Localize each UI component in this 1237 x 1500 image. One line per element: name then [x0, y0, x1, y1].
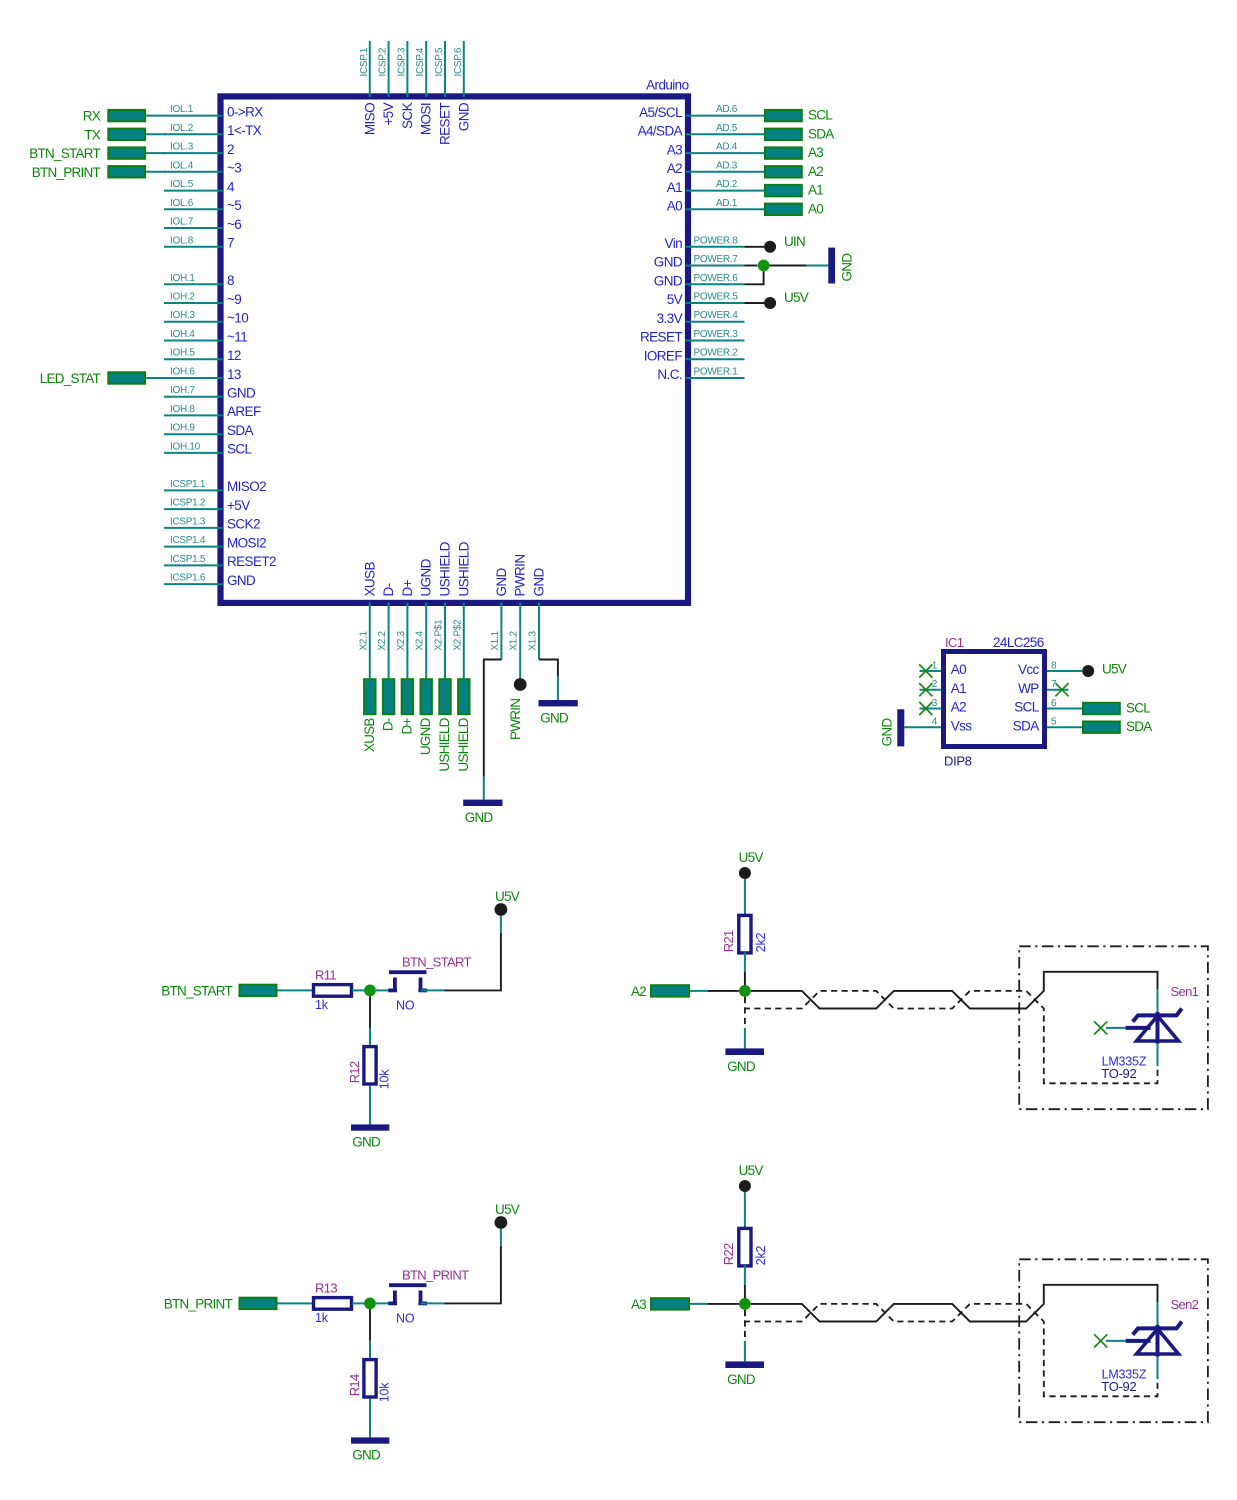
svg-text:UIN: UIN	[784, 234, 805, 249]
pad A2 (net A2)	[765, 164, 823, 179]
wire junction to R12	[369, 996, 371, 1045]
svg-text:4: 4	[227, 179, 235, 194]
wire BTN_START pad to R11	[278, 989, 314, 991]
svg-text:5V: 5V	[667, 292, 683, 307]
pin 5 (SDA) of IC1	[1013, 717, 1082, 734]
pin IOL.6 (~5) wire and labels	[164, 198, 241, 213]
svg-text:~10: ~10	[227, 311, 248, 326]
svg-text:8: 8	[227, 273, 234, 288]
svg-text:A2: A2	[631, 984, 646, 999]
svg-text:GND: GND	[654, 255, 683, 270]
pin IOH.5 (12) wire and labels	[164, 348, 241, 363]
ground GND symbol below R14	[351, 1437, 389, 1462]
pin 1 (A0) of IC1	[919, 661, 966, 678]
wire X1.3 to ground	[539, 603, 558, 701]
svg-text:IOL.1: IOL.1	[170, 104, 194, 115]
svg-text:ICSP.6: ICSP.6	[453, 47, 464, 76]
pin IOH.4 (~11) wire and labels	[164, 329, 247, 344]
pin X2.1 (XUSB) wire and labels	[358, 562, 377, 679]
label DIP8 package	[944, 754, 972, 769]
svg-text:IOH.2: IOH.2	[170, 292, 195, 303]
svg-text:IOH.3: IOH.3	[170, 310, 195, 321]
wire U5V to R22	[744, 1192, 746, 1228]
svg-text:SCL: SCL	[227, 442, 253, 457]
svg-text:N.C.: N.C.	[657, 367, 682, 382]
svg-text:GND: GND	[456, 102, 471, 131]
wire POWER.6 to GND junction	[745, 271, 764, 284]
svg-text:IOH.1: IOH.1	[170, 273, 195, 284]
pin ICSP1.3 (SCK2) wire and labels	[164, 516, 260, 531]
wire junction to switch BTN_START	[376, 989, 393, 991]
wire junction to ground (dashed)	[744, 997, 746, 1049]
svg-text:~5: ~5	[227, 198, 241, 213]
pin X2.P$2 (USHIELD) wire and labels	[452, 541, 471, 678]
svg-text:BTN_START: BTN_START	[161, 983, 232, 998]
svg-text:AD.4: AD.4	[716, 142, 738, 153]
svg-text:GND: GND	[227, 573, 256, 588]
wire R21 to junction	[744, 952, 746, 985]
svg-text:RESET2: RESET2	[227, 554, 276, 569]
resistor R14 (10k)	[347, 1360, 392, 1403]
pin ICSP.3 (SCK) wire and labels	[396, 41, 415, 129]
junction node A2 (green dot)	[739, 985, 751, 997]
svg-text:POWER.1: POWER.1	[694, 367, 739, 378]
svg-text:A2: A2	[951, 700, 966, 715]
pin AD.1 (A0) wire and labels	[667, 198, 764, 214]
pad XUSB (net XUSB)	[362, 679, 377, 752]
svg-text:2k2: 2k2	[754, 1245, 768, 1265]
pad D- (net D-)	[381, 679, 396, 731]
svg-text:12: 12	[227, 348, 241, 363]
wire Sen1 anode lead	[1157, 1044, 1159, 1067]
svg-text:USHIELD: USHIELD	[456, 541, 471, 596]
svg-text:SCK: SCK	[400, 102, 415, 129]
wire R14 to ground	[369, 1399, 371, 1438]
wire Sen2 ADJ pin with no-connect cross	[1094, 1334, 1126, 1347]
wire junction to ground (dashed)	[744, 1310, 746, 1362]
resistor R21 (2k2)	[721, 915, 768, 953]
svg-text:A3: A3	[667, 142, 682, 157]
ground GND symbol right of Arduino	[828, 248, 854, 284]
svg-text:IOL.7: IOL.7	[170, 217, 194, 228]
svg-text:1k: 1k	[315, 998, 329, 1012]
svg-text:SCK2: SCK2	[227, 517, 260, 532]
svg-text:A3: A3	[631, 1297, 646, 1312]
svg-text:NO: NO	[396, 999, 415, 1013]
svg-text:AD.2: AD.2	[716, 179, 738, 190]
wire R12 to ground	[369, 1086, 371, 1125]
svg-text:2k2: 2k2	[754, 932, 768, 952]
wire R22 to junction	[744, 1265, 746, 1298]
svg-text:U5V: U5V	[495, 1202, 520, 1217]
svg-text:MISO2: MISO2	[227, 479, 266, 494]
svg-text:A0: A0	[951, 662, 966, 677]
pad SDA (net SDA) at IC1	[1083, 719, 1152, 734]
svg-text:D+: D+	[399, 718, 414, 735]
pad SCL (net SCL)	[765, 108, 833, 123]
svg-text:GND: GND	[494, 567, 509, 596]
wire twisted-pair return GND to Sen1	[745, 991, 1158, 1083]
pin POWER.2 (IOREF) wire and labels	[644, 348, 745, 364]
svg-text:4: 4	[932, 717, 938, 728]
svg-text:A3: A3	[808, 145, 823, 160]
pin AD.6 (A5/SCL) wire and labels	[639, 104, 764, 120]
node U5V above switch	[495, 1202, 520, 1229]
pad A2 (net A2)	[631, 984, 689, 999]
svg-text:PWRIN: PWRIN	[513, 555, 528, 597]
svg-text:1k: 1k	[315, 1311, 329, 1325]
svg-text:10k: 10k	[378, 1382, 392, 1403]
resistor R12 (10k)	[347, 1047, 392, 1090]
svg-text:A1: A1	[951, 681, 966, 696]
svg-text:GND: GND	[227, 386, 256, 401]
svg-text:SCL: SCL	[1014, 700, 1040, 715]
svg-text:USHIELD: USHIELD	[438, 541, 453, 596]
junction GND node (green dot)	[758, 260, 770, 272]
pin ICSP.6 (GND) wire and labels	[453, 41, 472, 131]
pad USHIELD (net USHIELD)	[437, 679, 452, 771]
pad LED_STAT (net LED_STAT)	[40, 371, 166, 386]
svg-text:BTN_PRINT: BTN_PRINT	[32, 165, 101, 180]
svg-text:U5V: U5V	[495, 889, 520, 904]
svg-text:ICSP.5: ICSP.5	[434, 47, 445, 76]
svg-text:IC1: IC1	[945, 635, 964, 650]
pin ICSP1.2 (+5V) wire and labels	[164, 498, 250, 513]
label LM335Z part value	[1102, 1055, 1147, 1069]
svg-text:GND: GND	[727, 1059, 756, 1074]
svg-text:A1: A1	[667, 180, 682, 195]
wire twisted-pair signal A3 to Sen2	[751, 1285, 1158, 1322]
pin IOH.10 (SCL) wire and labels	[164, 441, 253, 456]
svg-text:BTN_PRINT: BTN_PRINT	[402, 1268, 469, 1283]
svg-text:RX: RX	[83, 109, 101, 124]
switch S BTN_START (NO pushbutton)	[388, 955, 471, 1013]
frame dash-dot enclosure Sen2	[1019, 1259, 1208, 1422]
wire Sen1 ADJ pin with no-connect cross	[1094, 1021, 1126, 1034]
svg-text:A0: A0	[808, 201, 823, 216]
pin IOL.5 (4) wire and labels	[164, 179, 235, 194]
svg-text:ICSP.4: ICSP.4	[415, 47, 426, 76]
pin IOH.1 (8) wire and labels	[164, 273, 234, 288]
pin POWER.7 (GND) wire and labels	[654, 254, 745, 270]
svg-text:U5V: U5V	[739, 1163, 764, 1178]
pin IOH.8 (AREF) wire and labels	[164, 404, 261, 419]
svg-text:+5V: +5V	[381, 102, 396, 125]
svg-text:TO-92: TO-92	[1101, 1066, 1136, 1081]
wire twisted-pair signal A2 to Sen1	[751, 972, 1158, 1009]
svg-text:POWER.5: POWER.5	[694, 292, 739, 303]
svg-text:~6: ~6	[227, 217, 241, 232]
svg-text:1: 1	[932, 661, 938, 672]
pin AD.3 (A2) wire and labels	[667, 160, 764, 176]
svg-text:13: 13	[227, 367, 241, 382]
node PWRIN wire, dot and label	[508, 603, 526, 741]
pin IOH.3 (~10) wire and labels	[164, 310, 248, 325]
junction node BTN_START divider (green dot)	[364, 985, 376, 997]
svg-text:ICSP1.3: ICSP1.3	[170, 516, 206, 527]
wire junction to switch BTN_PRINT	[376, 1302, 393, 1304]
pin IOL.1 (0->RX) wire and labels	[164, 104, 263, 119]
svg-text:R21: R21	[721, 930, 736, 952]
pin X1.1 (GND) labels	[490, 567, 509, 650]
svg-text:TO-92: TO-92	[1101, 1379, 1136, 1394]
wire junction to GND symbol	[770, 265, 829, 267]
pin ICSP.1 (MISO) wire and labels	[359, 41, 378, 135]
svg-text:6: 6	[1051, 698, 1057, 709]
svg-text:D+: D+	[400, 579, 415, 596]
pin IOH.2 (~9) wire and labels	[164, 292, 241, 307]
svg-text:R14: R14	[347, 1374, 362, 1396]
pad A3 (net A3)	[631, 1297, 689, 1312]
pin 7 (WP) of IC1	[1018, 679, 1068, 696]
svg-text:IOL.6: IOL.6	[170, 198, 194, 209]
svg-text:0->RX: 0->RX	[227, 104, 263, 119]
svg-text:GND: GND	[880, 718, 895, 747]
svg-text:IOH.7: IOH.7	[170, 385, 195, 396]
svg-text:LED_STAT: LED_STAT	[40, 371, 101, 386]
svg-text:R22: R22	[721, 1243, 736, 1265]
pin IOL.2 (1<-TX) wire and labels	[164, 123, 262, 138]
svg-text:PWRIN: PWRIN	[508, 699, 523, 740]
svg-text:X2.3: X2.3	[396, 630, 407, 650]
label 24LC256 part value	[993, 635, 1044, 650]
svg-text:BTN_START: BTN_START	[29, 146, 100, 161]
IC U2 24LC256 symbol outline	[944, 652, 1045, 747]
pad BTN_START (net BTN_START)	[29, 146, 166, 161]
pin 3 (A2) of IC1	[919, 698, 966, 715]
label TO-92 package	[1101, 1066, 1136, 1081]
pin AD.2 (A1) wire and labels	[667, 179, 764, 195]
pin 6 (SCL) of IC1	[1014, 698, 1082, 715]
svg-text:IOH.10: IOH.10	[170, 441, 201, 452]
svg-text:~11: ~11	[227, 329, 247, 344]
pin POWER.4 (3.3V) wire and labels	[657, 310, 745, 326]
svg-text:A1: A1	[808, 183, 823, 198]
pin POWER.6 (GND) wire and labels	[654, 273, 745, 289]
svg-text:AD.6: AD.6	[716, 104, 738, 115]
pad BTN_PRINT (net BTN_PRINT)	[32, 165, 166, 180]
node U5V above switch	[495, 889, 520, 916]
pin POWER.5 (5V) wire and labels	[667, 292, 745, 308]
wire POWER.7 to GND junction	[745, 265, 758, 267]
pad D+ (net D+)	[399, 679, 414, 734]
pin ICSP.4 (MOSI) wire and labels	[415, 41, 434, 135]
pin X2.P$1 (USHIELD) wire and labels	[434, 541, 453, 678]
svg-text:GND: GND	[465, 810, 494, 825]
svg-text:X2.P$2: X2.P$2	[452, 619, 463, 651]
pin X1.2 (PWRIN) labels	[509, 555, 528, 651]
wire X1.1 to ground	[484, 603, 502, 800]
frame dash-dot enclosure Sen1	[1019, 946, 1208, 1109]
svg-text:SDA: SDA	[808, 126, 834, 141]
label LM335Z part value	[1102, 1368, 1147, 1382]
svg-text:U5V: U5V	[1102, 662, 1127, 677]
svg-text:IOL.5: IOL.5	[170, 179, 194, 190]
svg-text:7: 7	[1051, 679, 1057, 690]
pin POWER.3 (RESET) wire and labels	[640, 329, 745, 345]
wire BTN_PRINT pad to R13	[278, 1302, 314, 1304]
pad UGND (net UGND)	[418, 679, 433, 755]
svg-text:IOL.8: IOL.8	[170, 235, 194, 246]
svg-text:MOSI: MOSI	[419, 103, 434, 135]
wire twisted-pair return GND to Sen2	[745, 1304, 1158, 1396]
IC U1 Arduino symbol outline	[221, 96, 689, 603]
svg-text:ICSP1.1: ICSP1.1	[170, 479, 206, 490]
node UIN junction dot and label	[745, 234, 806, 253]
label Sen2 part name	[1171, 1297, 1199, 1312]
svg-text:TX: TX	[84, 127, 100, 142]
svg-text:MISO: MISO	[362, 103, 377, 135]
svg-text:Sen1: Sen1	[1171, 984, 1199, 999]
node U5V above R22	[739, 1163, 764, 1192]
svg-text:U5V: U5V	[739, 850, 764, 865]
wire Sen1 cathode lead	[1157, 989, 1159, 1014]
pin IOH.9 (SDA) wire and labels	[164, 423, 254, 438]
svg-text:USHIELD: USHIELD	[437, 717, 452, 771]
svg-text:WP: WP	[1018, 681, 1039, 696]
pin IOH.7 (GND) wire and labels	[164, 385, 256, 400]
wire R11 to junction	[352, 989, 365, 991]
label TO-92 package	[1101, 1379, 1136, 1394]
svg-text:5: 5	[1051, 717, 1057, 728]
svg-text:8: 8	[1051, 661, 1057, 672]
resistor R22 (2k2)	[721, 1228, 768, 1266]
svg-text:BTN_START: BTN_START	[402, 955, 472, 970]
pin ICSP1.4 (MOSI2) wire and labels	[164, 535, 266, 550]
svg-text:SDA: SDA	[1013, 718, 1040, 733]
svg-text:X2.1: X2.1	[358, 630, 369, 650]
svg-text:GND: GND	[532, 567, 547, 596]
pin AD.4 (A3) wire and labels	[667, 142, 764, 158]
pin IOL.4 (~3) wire and labels	[164, 160, 241, 175]
svg-text:ICSP1.2: ICSP1.2	[170, 498, 206, 509]
svg-text:AREF: AREF	[227, 404, 261, 419]
svg-text:X2.4: X2.4	[415, 630, 426, 650]
svg-text:U5V: U5V	[784, 290, 809, 305]
svg-text:BTN_PRINT: BTN_PRINT	[164, 1296, 233, 1311]
node U5V junction dot and label	[745, 290, 809, 309]
wire A2 pad to junction	[690, 990, 739, 992]
wire R13 to junction	[352, 1302, 365, 1304]
wire switch to U5V	[421, 916, 501, 990]
svg-text:3: 3	[932, 698, 938, 709]
svg-text:IOH.9: IOH.9	[170, 423, 195, 434]
pad SDA (net SDA)	[765, 126, 834, 141]
resistor R13 (1k)	[314, 1281, 352, 1326]
svg-text:XUSB: XUSB	[362, 718, 377, 753]
svg-text:UGND: UGND	[419, 558, 434, 596]
svg-text:Vss: Vss	[951, 718, 973, 733]
junction node BTN_PRINT divider (green dot)	[364, 1298, 376, 1310]
node U5V at IC1 Vcc	[1082, 662, 1127, 677]
pin X1.3 (GND) labels	[528, 567, 547, 650]
svg-text:7: 7	[227, 236, 234, 251]
svg-text:R12: R12	[347, 1061, 362, 1083]
svg-text:RESET: RESET	[640, 330, 682, 345]
label IC1 part name	[945, 635, 964, 650]
pin IOL.8 (7) wire and labels	[164, 235, 234, 250]
pin ICSP1.6 (GND) wire and labels	[164, 573, 256, 588]
svg-text:1<-TX: 1<-TX	[227, 123, 262, 138]
svg-text:GND: GND	[540, 711, 569, 726]
pad A1 (net A1)	[765, 183, 823, 198]
svg-text:Sen2: Sen2	[1171, 1297, 1199, 1312]
svg-text:X2.P$1: X2.P$1	[434, 619, 445, 651]
svg-text:D-: D-	[381, 583, 396, 596]
pad RX (net RX)	[83, 109, 166, 124]
svg-text:XUSB: XUSB	[362, 562, 377, 597]
wire U5V to R21	[744, 879, 746, 915]
ground GND symbol below X1.1	[463, 800, 502, 826]
svg-text:POWER.8: POWER.8	[694, 235, 739, 246]
pin 8 (Vcc) of IC1	[1018, 661, 1082, 678]
pin IOL.7 (~6) wire and labels	[164, 217, 241, 232]
pin IOH.6 (13) wire and labels	[164, 367, 241, 382]
svg-text:~9: ~9	[227, 292, 241, 307]
pin ICSP1.1 (MISO2) wire and labels	[164, 479, 266, 494]
wire switch to U5V	[421, 1229, 501, 1303]
svg-text:MOSI2: MOSI2	[227, 535, 266, 550]
ground GND symbol below R12	[351, 1124, 389, 1149]
svg-text:24LC256: 24LC256	[993, 635, 1044, 650]
svg-text:USHIELD: USHIELD	[456, 717, 471, 771]
svg-text:UGND: UGND	[418, 717, 433, 755]
pad BTN_PRINT (net BTN_PRINT)	[164, 1296, 277, 1311]
svg-text:DIP8: DIP8	[944, 754, 972, 769]
label Arduino part name	[646, 78, 688, 93]
svg-text:GND: GND	[352, 1447, 381, 1462]
svg-text:POWER.7: POWER.7	[694, 254, 739, 265]
svg-text:ICSP1.4: ICSP1.4	[170, 535, 206, 546]
svg-text:GND: GND	[727, 1372, 756, 1387]
svg-text:IOL.2: IOL.2	[170, 123, 194, 134]
svg-text:IOH.4: IOH.4	[170, 329, 195, 340]
svg-text:3.3V: 3.3V	[657, 311, 683, 326]
resistor R11 (1k)	[314, 968, 352, 1013]
svg-text:POWER.2: POWER.2	[694, 348, 739, 359]
svg-text:R11: R11	[315, 968, 336, 983]
svg-text:~3: ~3	[227, 161, 241, 176]
pad SCL (net SCL) at IC1	[1083, 701, 1151, 716]
svg-text:AD.1: AD.1	[716, 198, 738, 209]
pin POWER.1 (N.C.) wire and labels	[657, 367, 744, 383]
svg-text:2: 2	[932, 679, 938, 690]
svg-text:NO: NO	[396, 1312, 415, 1326]
svg-text:IOH.5: IOH.5	[170, 348, 195, 359]
svg-text:X1.2: X1.2	[509, 630, 520, 650]
pin X2.2 (D-) wire and labels	[377, 583, 396, 678]
pin POWER.8 (Vin) wire and labels	[665, 235, 745, 251]
svg-text:X2.2: X2.2	[377, 630, 388, 650]
wire Sen2 anode lead	[1157, 1357, 1159, 1380]
svg-text:10k: 10k	[378, 1069, 392, 1090]
svg-text:X1.1: X1.1	[490, 630, 501, 650]
pin ICSP.5 (RESET) wire and labels	[434, 41, 453, 145]
wire Sen2 cathode lead	[1157, 1302, 1159, 1327]
pad USHIELD (net USHIELD)	[456, 679, 471, 771]
label Sen1 part name	[1171, 984, 1199, 999]
svg-text:X1.3: X1.3	[528, 630, 539, 650]
svg-text:IOREF: IOREF	[644, 348, 683, 363]
svg-text:A2: A2	[808, 164, 823, 179]
svg-text:ICSP1.6: ICSP1.6	[170, 573, 206, 584]
wire A3 pad to junction	[690, 1303, 739, 1305]
svg-text:SDA: SDA	[1126, 719, 1152, 734]
svg-text:A0: A0	[667, 199, 682, 214]
svg-text:SCL: SCL	[1126, 701, 1151, 716]
svg-text:ICSP.2: ICSP.2	[378, 47, 389, 76]
pin X2.4 (UGND) wire and labels	[415, 558, 434, 678]
